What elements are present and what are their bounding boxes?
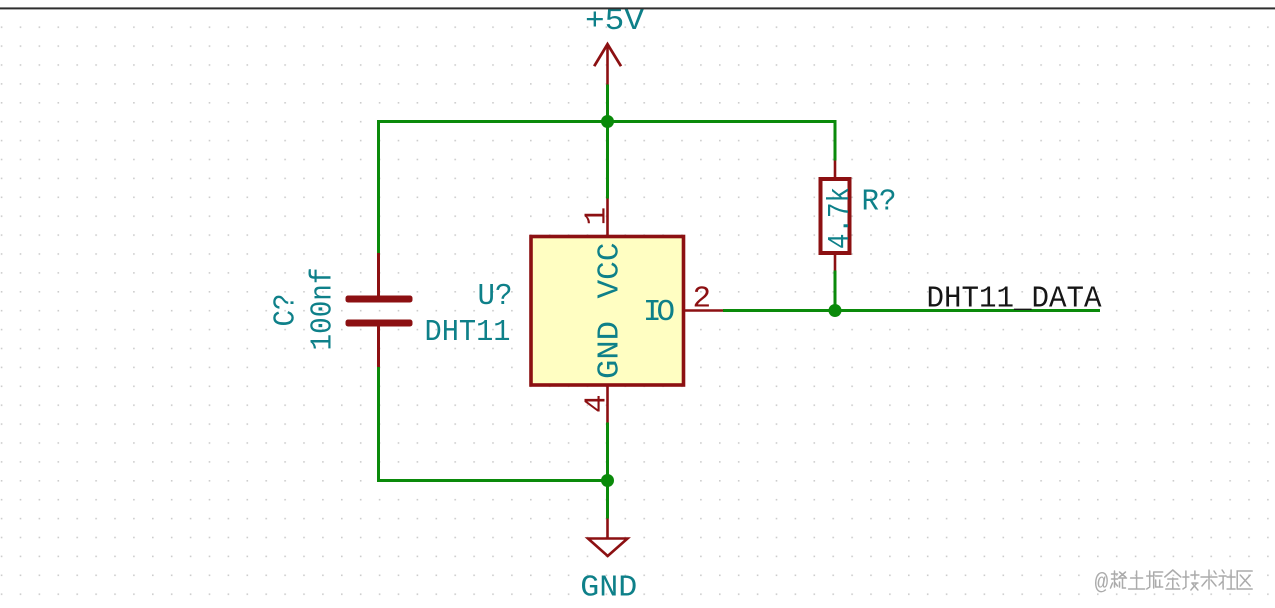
junction J3 [601,474,614,487]
pin 1 line [606,199,609,236]
wire: resistor bottom to junction J2 [834,271,837,311]
resistor bottom lead [834,253,837,271]
capacitor top plate [346,296,413,303]
svg-text:DHT11: DHT11 [425,315,511,350]
svg-text:100nf: 100nf [306,268,341,351]
ground lead [606,519,609,538]
svg-text:C?: C? [269,294,304,327]
junction J2 [829,304,842,317]
ground symbol [580,519,637,606]
svg-text:4.7k: 4.7k [823,187,858,249]
resistor top lead [834,161,837,180]
wire: rail down to capacitor top [377,120,380,253]
wire: J3 down to GND symbol [606,481,609,519]
symbol body [531,237,684,386]
svg-text:GND: GND [593,321,628,379]
wire: data net from pin 2 to label end [723,309,1100,312]
power flag +5V [585,4,644,85]
wire: J1 down to pin 1 [606,122,609,199]
wire: rail down to resistor top [834,120,837,161]
+5V arrow stem [606,44,609,85]
pin 2 line [685,309,723,312]
wire: +5V stem to junction J1 [606,85,609,122]
resistor R? [821,161,897,271]
wire: capacitor bottom down to gnd rail corner [379,367,608,481]
pin 4 line [606,387,609,423]
svg-text:@: @ [1095,570,1109,596]
IC U? DHT11 [425,199,724,423]
svg-text:1: 1 [580,207,615,226]
svg-text:GND: GND [580,571,637,606]
svg-text:DHT11_DATA: DHT11_DATA [927,282,1102,317]
svg-text:R?: R? [862,185,897,220]
resistor body [821,179,850,253]
svg-text:VCC: VCC [593,243,628,299]
svg-text:4: 4 [580,394,615,413]
wire: pin 4 to junction J3 [606,423,609,481]
+5V arrow chevron [594,44,621,66]
capacitor C? [269,253,413,367]
ground triangle [588,539,628,557]
svg-text:2: 2 [693,282,712,317]
svg-text:U?: U? [478,279,513,314]
net label DHT11_DATA [927,282,1102,317]
watermark @juejin community [1095,570,1253,596]
top border line [0,7,1275,9]
capacitor bottom plate [346,320,413,327]
wire: top horizontal rail [377,120,837,123]
junction J1 [601,115,614,128]
svg-text:O: O [657,295,676,330]
capacitor bottom lead [377,326,380,367]
capacitor top lead [377,253,380,296]
